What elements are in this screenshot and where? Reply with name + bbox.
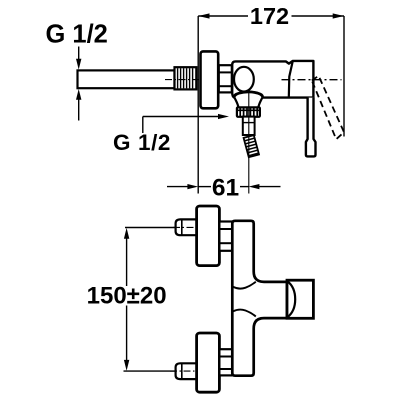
cap separation line <box>289 61 293 98</box>
supply pipe (side view) <box>78 70 175 88</box>
top inlet centerline <box>173 226 201 228</box>
pipe diameter dimension G1/2 (arrows) <box>78 47 80 62</box>
dimension 150±20 extension top <box>125 227 177 229</box>
cartridge circle <box>234 67 254 92</box>
outlet cap arc <box>287 281 295 317</box>
leader G1/2 to hose thread <box>142 117 144 134</box>
dimension 150±20 extension bottom <box>124 370 177 372</box>
hose nipple threads (angled) <box>244 135 259 157</box>
hose nut (knurled) <box>237 107 260 116</box>
svg-text:150±20: 150±20 <box>87 283 167 310</box>
pipe centerline <box>165 79 200 81</box>
dimension 172 arrowheads <box>198 13 209 18</box>
svg-text:G 1/2: G 1/2 <box>46 21 108 49</box>
dimension 172 line <box>198 15 344 17</box>
intersection arc top <box>233 282 256 289</box>
bottom wall flange (front view) <box>197 333 220 392</box>
wall flange (side view) <box>201 51 219 108</box>
outlet neck <box>235 98 239 107</box>
body tube (front view) with outlet mouth <box>232 221 287 376</box>
mixer body (side view) <box>232 61 313 98</box>
svg-text:61: 61 <box>212 174 239 201</box>
extension line right (lever tip) <box>343 16 345 137</box>
lever handle (dashed, swung position) <box>312 76 344 139</box>
svg-text:G 1/2: G 1/2 <box>113 130 171 155</box>
outlet axis centerline <box>248 92 250 194</box>
bottom inlet centerline <box>170 370 201 372</box>
hose nipple plain section <box>243 117 255 135</box>
outlet dome (under body) <box>234 92 262 97</box>
outlet cap (front view) <box>287 280 313 318</box>
svg-text:172: 172 <box>250 3 289 29</box>
thread crest lines <box>178 68 193 88</box>
intersection arc bottom <box>233 310 256 317</box>
top union nut (front view) <box>219 222 232 251</box>
lever handle (solid, hanging) <box>306 98 316 157</box>
pipe thread block <box>175 67 197 89</box>
bottom inlet stub (front view) <box>176 363 198 379</box>
union nut (side view) <box>219 65 232 92</box>
top wall flange (front view) <box>197 206 220 266</box>
extension line left (wall plane) <box>197 16 199 194</box>
cartridge centerline (side view) <box>282 79 342 81</box>
bottom union nut (front view) <box>219 349 232 375</box>
top inlet stub (front view) <box>176 219 198 235</box>
dimension 150±20 line + arrows <box>126 237 128 286</box>
dimension 61 <box>167 186 189 188</box>
